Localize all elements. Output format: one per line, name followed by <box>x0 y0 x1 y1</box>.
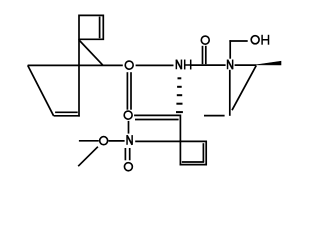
atom O of OH hydroxyl: O glyph <box>251 36 259 44</box>
atom H of OH hydroxyl: H glyph <box>262 35 268 45</box>
methoxy methyl bond horizontal <box>79 140 99 142</box>
stereocenter vertical bond and ring B left edge <box>179 115 181 166</box>
atom N of NH amide: N glyph <box>176 60 181 70</box>
main vertical bond <box>78 39 80 116</box>
O1=O4 double bond line 2 <box>130 72 132 110</box>
N5=O6 double bond line 2 <box>129 148 131 160</box>
ring B right outer bond <box>205 141 207 166</box>
bond O5 to N5 <box>109 140 125 142</box>
ring A double bond inner line <box>99 17 101 39</box>
O4=C double bond offset line <box>135 119 179 121</box>
bond O1 to NH <box>136 64 174 66</box>
atom O1 ether: O glyph <box>125 61 133 69</box>
atom O2 carbonyl: O glyph <box>201 36 209 44</box>
main horizontal chain bond to O1 <box>28 64 123 66</box>
bond N3 up to CH2 <box>229 40 231 59</box>
solid wedge bond from aziridine vertex <box>256 61 281 65</box>
atom N5 nitro: N glyph <box>127 135 132 145</box>
atom H of NH amide: H glyph <box>185 60 191 70</box>
carbonyl C=O double bond line 1 <box>202 46 204 64</box>
bond O4 down to N5 <box>128 121 130 134</box>
atom O6 nitro: O glyph <box>124 163 132 171</box>
N5=O6 double bond line 1 <box>124 148 126 160</box>
hashed wedge stereo bond below NH <box>176 77 183 113</box>
aziridine diagonal bond <box>232 66 256 111</box>
atom N3 amide: N glyph <box>228 60 233 70</box>
bond NH to carbonyl C to N3 <box>191 64 226 66</box>
ring B right inner double line <box>202 143 204 162</box>
O1=O4 double bond line 1 <box>126 72 128 110</box>
bond N5 right and ring B top edge <box>135 140 207 142</box>
atom O4: O glyph <box>124 111 132 119</box>
ring B bottom outer bond <box>180 164 207 166</box>
cyclobutene ring A outline <box>79 15 103 39</box>
left ring diagonal bond <box>28 65 54 115</box>
methoxy methyl bond diagonal <box>78 147 98 167</box>
ring B bottom inner double line <box>182 161 204 163</box>
short bond segment <box>204 115 225 117</box>
bond CH2 to OH <box>229 40 247 42</box>
left ring bottom bond <box>54 115 80 117</box>
bond N3 right to wedge vertex <box>235 64 257 66</box>
bond N3 down <box>229 70 231 116</box>
cyclopropane diagonal bond <box>79 40 103 65</box>
left ring double bond inner line <box>55 111 78 113</box>
atom O5 methoxy: O glyph <box>100 137 108 145</box>
O4=C double bond main line <box>134 114 180 116</box>
carbonyl C=O double bond line 2 <box>205 46 207 64</box>
